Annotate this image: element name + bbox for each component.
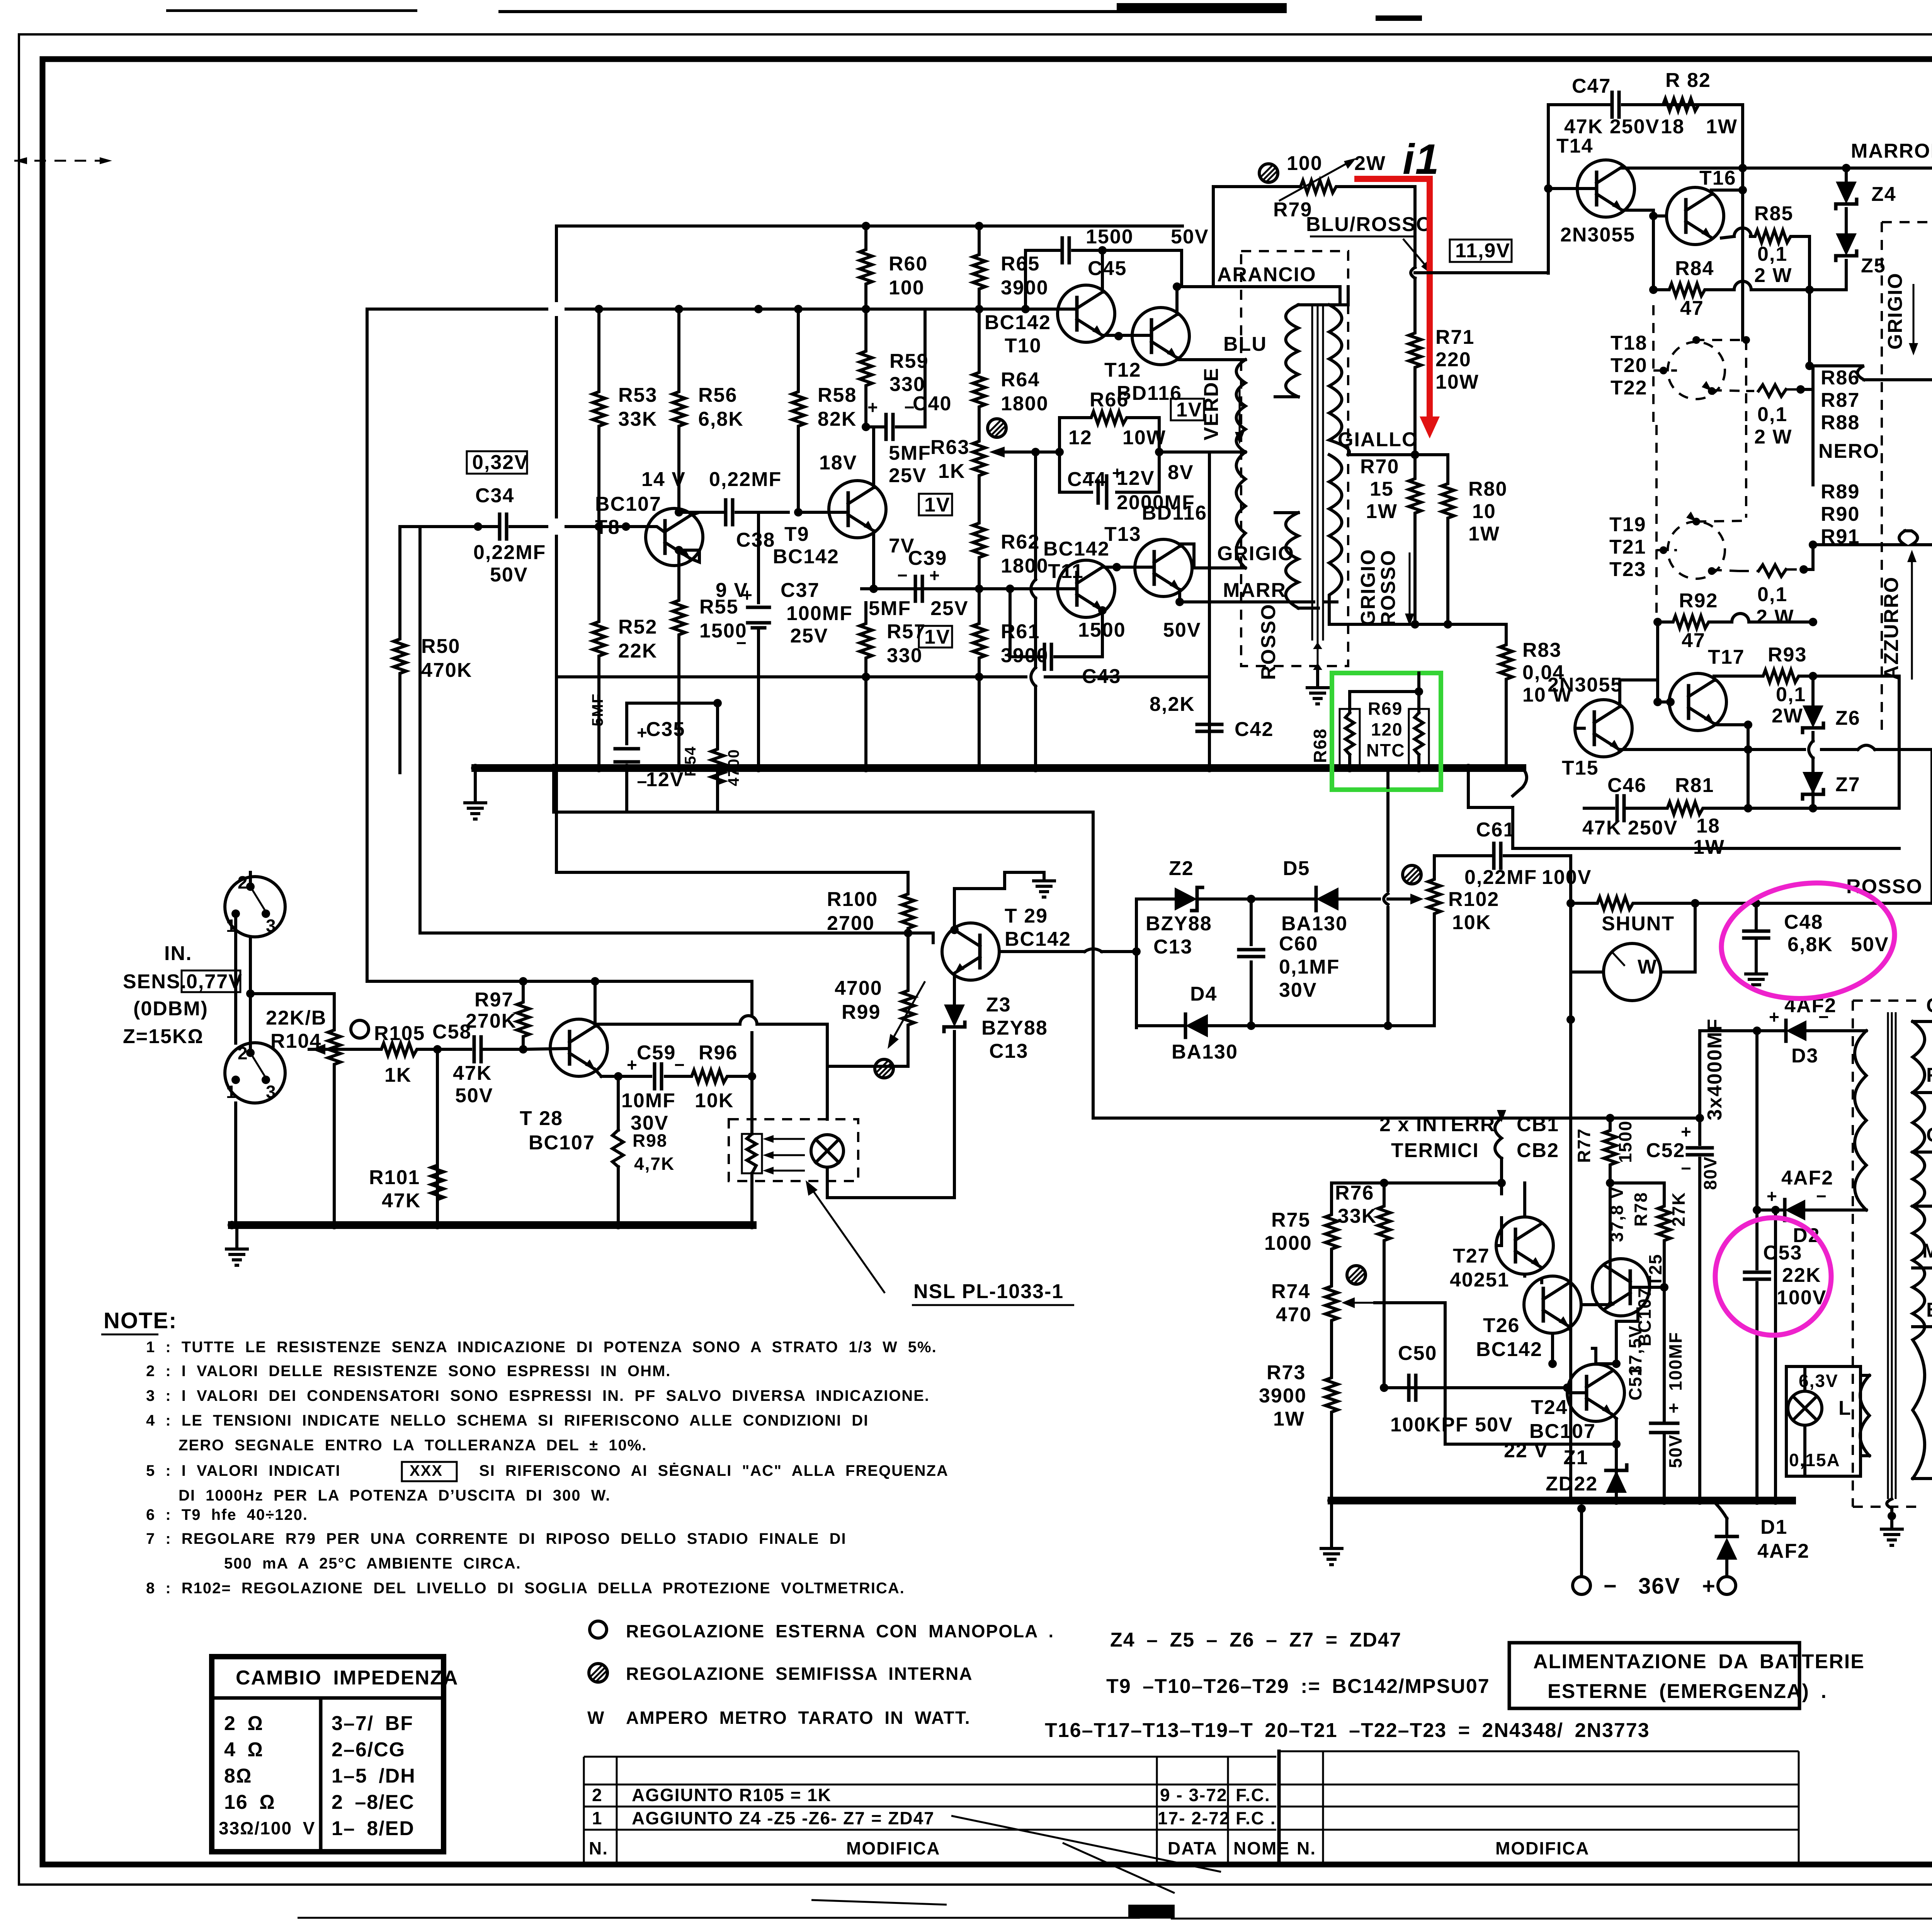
transformer secondary left upper xyxy=(1275,305,1340,397)
svg-text:T14: T14 xyxy=(1556,135,1594,157)
transformer core ground xyxy=(1307,641,1328,704)
capacitor C47 loop xyxy=(1548,75,1743,273)
resistor R101 xyxy=(369,1162,444,1212)
svg-text:T20: T20 xyxy=(1611,354,1648,377)
svg-text:T18: T18 xyxy=(1611,332,1648,354)
svg-text:2N3055: 2N3055 xyxy=(1548,674,1622,696)
svg-text:50V: 50V xyxy=(1665,1434,1685,1468)
svg-text:T25: T25 xyxy=(1645,1254,1665,1287)
svg-text:9 - 3-72: 9 - 3-72 xyxy=(1160,1785,1228,1805)
XLR connector upper xyxy=(225,872,285,937)
svg-text:AMPERO METRO TARATO IN W: AMPERO METRO TARATO IN WATT. xyxy=(626,1708,971,1728)
svg-text:40251: 40251 xyxy=(1450,1269,1510,1291)
svg-text:R105: R105 xyxy=(374,1022,425,1045)
capacitor C50 xyxy=(1380,1303,1513,1436)
svg-text:10W: 10W xyxy=(1122,427,1166,449)
diode D4 xyxy=(1136,983,1392,1063)
svg-text:1500: 1500 xyxy=(1086,226,1134,248)
capacitor C48 xyxy=(1744,903,1889,990)
svg-text:BA130: BA130 xyxy=(1172,1041,1238,1063)
resistor R98 xyxy=(612,1076,675,1225)
svg-text:82K: 82K xyxy=(818,408,857,430)
resistor R100 xyxy=(827,872,914,970)
svg-text:R96: R96 xyxy=(699,1042,738,1064)
svg-text:D1: D1 xyxy=(1760,1516,1787,1538)
svg-text:T17: T17 xyxy=(1708,646,1745,668)
primary winding with taps xyxy=(1913,1021,1925,1479)
svg-text:AZZURRO: AZZURRO xyxy=(1880,576,1903,680)
dashed parallel transistors T19 T21 T23 xyxy=(1609,425,1746,618)
svg-text:R93: R93 xyxy=(1768,644,1807,666)
voltage box 1V a xyxy=(1171,399,1204,421)
resistor R52 xyxy=(593,527,657,744)
svg-text:33K: 33K xyxy=(618,408,657,430)
transistor T26 xyxy=(1476,1276,1581,1361)
resistor R75 xyxy=(1264,1209,1338,1254)
pot R63 xyxy=(930,419,1040,520)
svg-text:1V: 1V xyxy=(1176,399,1202,421)
svg-text:0,22MF: 0,22MF xyxy=(709,468,782,491)
svg-text:C52: C52 xyxy=(1646,1139,1685,1162)
svg-text:GRIGIO: GRIGIO xyxy=(1884,272,1906,350)
lamp 63V box xyxy=(1786,1366,1861,1476)
svg-text:NOTE:: NOTE: xyxy=(104,1308,177,1333)
svg-text:R75: R75 xyxy=(1271,1209,1310,1231)
svg-text:T11: T11 xyxy=(1048,560,1084,583)
capacitor C60 xyxy=(1239,899,1340,1026)
svg-text:8Ω: 8Ω xyxy=(224,1765,252,1787)
resistor R83 xyxy=(1500,639,1572,768)
svg-text:T16: T16 xyxy=(1699,167,1736,189)
tap BLU 145V xyxy=(1913,1178,1932,1215)
capacitor C46 xyxy=(1582,774,1678,839)
svg-text:T9 –T10–T26–T29 := BC142/MPSU0: T9 –T10–T26–T29 := BC142/MPSU07 xyxy=(1106,1675,1490,1698)
svg-text:12V: 12V xyxy=(1117,467,1155,489)
svg-text:D4: D4 xyxy=(1190,983,1217,1005)
svg-text:T9: T9 xyxy=(784,523,810,546)
svg-text:C45: C45 xyxy=(1088,257,1127,280)
svg-text:−: − xyxy=(1816,1186,1827,1206)
svg-text:1800: 1800 xyxy=(1001,555,1049,577)
resistor R57 xyxy=(860,603,926,677)
wire R86 node xyxy=(1801,366,1813,389)
svg-text:R65: R65 xyxy=(1001,253,1040,275)
wire T28 base xyxy=(524,1049,570,1049)
svg-text:T15: T15 xyxy=(1562,757,1599,779)
svg-text:1: 1 xyxy=(226,1082,237,1102)
svg-text:37,5V: 37,5V xyxy=(1625,1325,1645,1375)
transistor T14 xyxy=(1556,135,1635,246)
svg-text:DI 1000Hz PER LA POTE: DI 1000Hz PER LA POTENZA D’USCITA DI 300… xyxy=(179,1487,611,1504)
svg-text:BC142: BC142 xyxy=(773,546,839,568)
svg-text:3–7/ BF: 3–7/ BF xyxy=(332,1712,413,1735)
svg-text:R56: R56 xyxy=(698,384,737,406)
svg-text:CB2: CB2 xyxy=(1517,1139,1559,1162)
wire T10 collector xyxy=(1101,250,1104,292)
top edge scan marks xyxy=(166,9,417,12)
svg-text:C40: C40 xyxy=(913,393,952,415)
svg-text:R68: R68 xyxy=(1310,728,1330,763)
dashed emitter resistor 0,1 2W upper xyxy=(1746,385,1805,448)
svg-text:50V: 50V xyxy=(1171,226,1209,248)
svg-text:3x4000MF: 3x4000MF xyxy=(1704,1018,1726,1120)
svg-text:18: 18 xyxy=(1661,116,1685,138)
transformer secondary right lower xyxy=(1329,455,1342,624)
svg-text:+: + xyxy=(1681,1122,1692,1142)
svg-text:BC142: BC142 xyxy=(1005,928,1071,950)
wire T14 emitter to T16 base xyxy=(1622,210,1667,290)
zener Z2 xyxy=(1136,857,1251,958)
svg-text:0,1: 0,1 xyxy=(1757,583,1787,606)
svg-text:1W: 1W xyxy=(1366,500,1398,523)
circuit breakers CB1 CB2 xyxy=(1379,1110,1559,1183)
capacitor C35 xyxy=(589,693,685,811)
wire R77 node xyxy=(1502,1118,1700,1305)
voltage box 1V c xyxy=(919,626,952,648)
resistor R60 xyxy=(860,226,928,309)
svg-text:C13: C13 xyxy=(989,1040,1028,1062)
svg-text:C53: C53 xyxy=(1763,1242,1802,1264)
svg-text:BC142: BC142 xyxy=(1476,1338,1543,1361)
svg-text:Z=15KΩ: Z=15KΩ xyxy=(123,1025,204,1048)
svg-text:−: − xyxy=(1604,1574,1617,1599)
input ground bus xyxy=(232,1221,753,1229)
svg-text:Z2: Z2 xyxy=(1169,857,1194,880)
label GRIGIO vertical with arrow xyxy=(1884,272,1918,355)
svg-text:47: 47 xyxy=(1682,629,1706,652)
svg-text:−: − xyxy=(897,565,908,585)
svg-text:N.: N. xyxy=(589,1838,608,1858)
svg-text:C59: C59 xyxy=(637,1042,676,1064)
svg-text:R78: R78 xyxy=(1631,1192,1651,1227)
magenta oval C48 xyxy=(1715,874,1901,1008)
wire R96 node up to rail xyxy=(591,981,752,1076)
svg-text:T27: T27 xyxy=(1453,1245,1490,1267)
svg-text:C47: C47 xyxy=(1572,75,1611,97)
pot R102 xyxy=(1388,856,1499,1026)
wire T28 collector xyxy=(595,981,827,1119)
svg-text:BC142: BC142 xyxy=(1043,538,1110,560)
svg-text:100V: 100V xyxy=(1777,1287,1827,1309)
svg-text:R58: R58 xyxy=(818,384,857,406)
svg-text:C61: C61 xyxy=(1476,819,1515,841)
svg-text:47K: 47K xyxy=(382,1190,421,1212)
lamp xyxy=(811,1135,954,1198)
svg-text:25V: 25V xyxy=(930,597,969,620)
NOTE heading xyxy=(101,1308,177,1334)
svg-text:R70: R70 xyxy=(1360,455,1399,478)
svg-text:−: − xyxy=(1085,463,1096,483)
wire T13 collector GRIGIO xyxy=(1180,544,1245,568)
hook at bus right end xyxy=(1513,768,1527,796)
resistor R78 xyxy=(1610,1183,1689,1292)
svg-text:ROSSO: ROSSO xyxy=(1846,875,1923,898)
svg-text:10K: 10K xyxy=(695,1089,734,1112)
svg-text:2 : I VALORI DELLE RESIS: 2 : I VALORI DELLE RESISTENZE SONO ESPRE… xyxy=(146,1363,671,1380)
wire top rail V+ xyxy=(556,224,1182,228)
knob circle xyxy=(351,1020,369,1038)
resistor R53 xyxy=(593,309,657,527)
capacitor C45 loop xyxy=(1026,226,1209,309)
bottom page edge lines xyxy=(298,1918,1932,1919)
wire T11 base xyxy=(979,587,1077,590)
svg-text:NSL PL-1033-1: NSL PL-1033-1 xyxy=(913,1280,1064,1303)
svg-text:R 82: R 82 xyxy=(1665,69,1711,92)
svg-text:+: + xyxy=(1702,1574,1716,1599)
svg-text:MODIFICA: MODIFICA xyxy=(1495,1838,1589,1858)
R66 C44 box xyxy=(1036,389,1195,514)
resistor R85 xyxy=(1721,202,1810,290)
svg-text:1000: 1000 xyxy=(1264,1232,1312,1254)
svg-text:−: − xyxy=(736,633,747,653)
wire lower rail xyxy=(556,455,1209,677)
battery terminals -36V+ xyxy=(1573,1509,1736,1599)
svg-text:R74: R74 xyxy=(1271,1280,1310,1303)
svg-text:1V: 1V xyxy=(924,626,951,648)
svg-text:R101: R101 xyxy=(369,1166,420,1189)
power transformer core xyxy=(1888,1012,1896,1499)
svg-text:30V: 30V xyxy=(1279,979,1317,1001)
svg-text:5 : I VALORI INDICATI: 5 : I VALORI INDICATI xyxy=(146,1462,341,1479)
svg-text:GRIGIO 240V: GRIGIO 240V xyxy=(1926,994,1932,1017)
svg-text:R79: R79 xyxy=(1273,199,1312,221)
tap MARRONE 125V xyxy=(1913,1240,1932,1277)
power transformer dashed box xyxy=(1853,1001,1922,1507)
pot R74 xyxy=(1271,1280,1375,1326)
svg-text:R52: R52 xyxy=(618,616,657,638)
transformer center tap ground xyxy=(1881,1499,1902,1545)
svg-text:2: 2 xyxy=(592,1785,603,1805)
svg-text:2: 2 xyxy=(238,1043,248,1063)
wire 22V row xyxy=(1445,1388,1616,1444)
resistor R64 xyxy=(973,309,1049,431)
svg-text:6,8K: 6,8K xyxy=(698,408,744,430)
capacitor C51 xyxy=(1625,1287,1685,1501)
svg-text:MARRONE: MARRONE xyxy=(1851,140,1932,162)
wire collector feed rail xyxy=(367,309,591,981)
svg-text:R84: R84 xyxy=(1675,257,1714,280)
svg-text:R57: R57 xyxy=(887,620,926,643)
svg-text:AGGIUNTO Z4 -Z5 -Z6- Z7 = ZD4: AGGIUNTO Z4 -Z5 -Z6- Z7 = ZD47 xyxy=(632,1808,935,1828)
resistor R97 xyxy=(466,977,529,1054)
svg-text:2700: 2700 xyxy=(827,912,875,935)
svg-text:5MF: 5MF xyxy=(889,442,931,464)
tap GIALLO 160V xyxy=(1913,1124,1932,1161)
capacitor C53 xyxy=(1745,1210,1827,1501)
svg-text:Z4: Z4 xyxy=(1871,183,1896,206)
svg-text:470: 470 xyxy=(1276,1304,1312,1326)
svg-text:2 W: 2 W xyxy=(1754,264,1792,287)
meter shunt resistor xyxy=(1571,750,1932,935)
svg-text:3: 3 xyxy=(266,1082,277,1102)
capacitor C58 xyxy=(432,1021,524,1225)
svg-text:100MF: 100MF xyxy=(786,602,853,625)
resistor R76 xyxy=(1335,1182,1390,1303)
svg-text:C37: C37 xyxy=(781,579,820,602)
resistor R73 xyxy=(1259,1361,1338,1430)
wire hook to 11,9V rail xyxy=(1411,267,1548,287)
transistor T10 xyxy=(985,285,1115,357)
svg-text:CAMBIO IMPEDENZA: CAMBIO IMPEDENZA xyxy=(236,1667,459,1689)
svg-text:R85: R85 xyxy=(1754,202,1793,225)
svg-text:4 Ω: 4 Ω xyxy=(224,1739,264,1761)
transistor T15 xyxy=(1548,674,1632,779)
svg-text:2W: 2W xyxy=(1772,705,1803,727)
svg-text:470K: 470K xyxy=(421,659,472,682)
wire T12 emitter BLU xyxy=(1177,358,1245,360)
wire T13 emitter MARR xyxy=(1180,590,1337,602)
svg-text:BLU: BLU xyxy=(1223,333,1267,355)
right revision table xyxy=(1279,1751,1799,1864)
driver transformer dashed box xyxy=(1241,251,1348,666)
svg-text:1W: 1W xyxy=(1273,1408,1305,1430)
svg-text:R97: R97 xyxy=(474,989,514,1011)
resistor R61 xyxy=(973,589,1049,677)
zener Z3 xyxy=(944,994,1048,1198)
dashed emitter resistor 0,1 2W lower xyxy=(1739,565,1808,628)
svg-text:SHUNT: SHUNT xyxy=(1602,913,1675,935)
svg-text:REGOLAZIONE ESTERNA CON: REGOLAZIONE ESTERNA CON MANOPOLA . xyxy=(626,1621,1054,1641)
svg-text:33K: 33K xyxy=(1338,1205,1377,1227)
svg-text:2 W: 2 W xyxy=(1754,426,1792,448)
wire T16 collector xyxy=(1711,168,1743,194)
pot R104 22K/B xyxy=(266,1007,340,1225)
svg-text:F.C.: F.C. xyxy=(1236,1785,1270,1805)
pot R79 100 2W xyxy=(1213,152,1415,287)
svg-text:T21: T21 xyxy=(1609,536,1646,558)
diode D1 xyxy=(1713,1501,1810,1577)
svg-text:270K: 270K xyxy=(466,1010,517,1032)
meter W xyxy=(1566,899,1695,1501)
left revision table xyxy=(584,1751,1290,1864)
optocoupler dashed box xyxy=(729,1119,858,1181)
svg-text:1 : TUTTE LE RESISTENZE SEN: 1 : TUTTE LE RESISTENZE SENZA INDICAZION… xyxy=(146,1339,937,1356)
svg-text:1800: 1800 xyxy=(1001,393,1049,415)
wire T28 emitter row xyxy=(595,1069,618,1076)
svg-text:18: 18 xyxy=(1696,815,1720,837)
labels R86 R87 R88 xyxy=(1821,367,1860,434)
svg-text:R63: R63 xyxy=(930,436,969,459)
svg-text:Z4 – Z5 – Z6 – Z7 = ZD47: Z4 – Z5 – Z6 – Z7 = ZD47 xyxy=(1110,1629,1402,1651)
svg-text:C48: C48 xyxy=(1784,911,1823,933)
resistor R82 xyxy=(1658,69,1738,138)
voltage box 11,9V xyxy=(1450,240,1512,262)
wire T11 collector to T13 base xyxy=(1102,566,1154,569)
svg-text:T19: T19 xyxy=(1609,513,1646,536)
wire T10 emitter to T12 base xyxy=(1102,334,1151,337)
svg-text:2 Ω: 2 Ω xyxy=(224,1712,264,1735)
svg-text:R88: R88 xyxy=(1821,411,1860,434)
zener Z5 xyxy=(1810,221,1886,290)
svg-text:GIALLO: GIALLO xyxy=(1338,428,1418,451)
svg-text:GRIGIO: GRIGIO xyxy=(1357,549,1379,626)
label NSL PL-1033-1 xyxy=(912,1280,1074,1305)
svg-text:3900: 3900 xyxy=(1001,644,1049,667)
svg-text:R60: R60 xyxy=(889,253,928,275)
wire T9 base/collector xyxy=(798,427,874,512)
wire Z5 node down to winding xyxy=(1810,290,1864,380)
node dots rail2 xyxy=(595,305,603,313)
XLR connector lower xyxy=(225,1043,285,1103)
svg-text:1– 8/ED: 1– 8/ED xyxy=(332,1817,415,1840)
svg-text:(0DBM): (0DBM) xyxy=(133,998,208,1020)
wire top to 2700 label xyxy=(556,871,908,874)
svg-text:R90: R90 xyxy=(1821,503,1860,525)
svg-text:R89: R89 xyxy=(1821,481,1860,503)
zener Z6 xyxy=(1803,676,1861,808)
svg-text:50V: 50V xyxy=(455,1084,493,1107)
tap ROSSO 220V xyxy=(1913,1064,1932,1101)
capacitor C34 xyxy=(400,484,599,586)
wire T8 collector xyxy=(679,512,699,515)
resistor R92 xyxy=(1653,590,1817,652)
svg-text:120: 120 xyxy=(1371,719,1403,739)
resistor R84 xyxy=(1649,257,1814,320)
svg-text:R102: R102 xyxy=(1448,888,1499,911)
label GRIGIO ROSSO vertical pair xyxy=(1357,549,1414,626)
dashed box outputs top xyxy=(1882,222,1932,736)
svg-text:50V: 50V xyxy=(1163,619,1201,641)
svg-text:BIANCO 110V: BIANCO 110V xyxy=(1926,1299,1932,1321)
svg-text:−: − xyxy=(1818,1007,1830,1027)
svg-text:GRIGIO: GRIGIO xyxy=(1217,542,1294,565)
label ROSSO vertical xyxy=(1257,603,1280,680)
svg-text:DATA: DATA xyxy=(1168,1838,1218,1858)
svg-text:T 28: T 28 xyxy=(520,1107,563,1130)
transformer secondary left lower xyxy=(1275,513,1318,608)
svg-text:ALIMENTAZIONE DA BATTERIE: ALIMENTAZIONE DA BATTERIE xyxy=(1533,1650,1865,1673)
red annotation i1 xyxy=(1354,136,1440,438)
diode D2 xyxy=(1753,1167,1866,1247)
resistor R68 boxed xyxy=(1310,692,1360,771)
svg-text:10K: 10K xyxy=(1452,911,1491,934)
main ground bus xyxy=(475,764,1522,772)
svg-text:+: + xyxy=(867,397,879,417)
svg-text:1K: 1K xyxy=(384,1064,412,1086)
svg-text:W: W xyxy=(1638,956,1657,978)
80V secondary winding xyxy=(1855,1031,1866,1210)
transistor T27 xyxy=(1450,1217,1553,1291)
capacitor C42 with 8,2K xyxy=(1150,693,1274,768)
svg-text:4700: 4700 xyxy=(835,977,883,999)
wire second rail xyxy=(367,308,951,311)
svg-text:MARRONE 125V: MARRONE 125V xyxy=(1922,1240,1932,1262)
svg-text:R73: R73 xyxy=(1267,1361,1306,1384)
svg-text:R99: R99 xyxy=(842,1001,881,1023)
svg-text:T16–T17–T13–T19–T 20–T21 –T22–: T16–T17–T13–T19–T 20–T21 –T22–T23 = 2N43… xyxy=(1045,1719,1650,1742)
capacitor C59 xyxy=(618,1042,685,1134)
wire T27 chain xyxy=(1384,1183,1596,1393)
svg-text:4AF2: 4AF2 xyxy=(1757,1540,1810,1562)
svg-text:100: 100 xyxy=(889,277,925,299)
transformer secondary right xyxy=(1329,287,1349,455)
svg-text:17- 2-72: 17- 2-72 xyxy=(1158,1808,1230,1828)
optocoupler arrows xyxy=(763,1135,805,1174)
svg-text:50V: 50V xyxy=(490,564,528,586)
svg-text:AGGIUNTO R105 = 1K: AGGIUNTO R105 = 1K xyxy=(632,1785,832,1805)
transistor T17 xyxy=(1669,646,1745,731)
magenta oval C53 xyxy=(1715,1218,1831,1335)
optocoupler LDR xyxy=(742,1076,762,1223)
svg-text:0,32V: 0,32V xyxy=(472,451,529,474)
svg-text:0,22MF: 0,22MF xyxy=(473,541,546,564)
svg-text:R104: R104 xyxy=(270,1030,321,1052)
primary feed wires xyxy=(1864,168,1932,665)
svg-text:47: 47 xyxy=(1680,297,1704,320)
wire T8 base xyxy=(599,527,665,532)
svg-text:R81: R81 xyxy=(1675,774,1714,797)
transistor T12 xyxy=(1104,308,1189,404)
